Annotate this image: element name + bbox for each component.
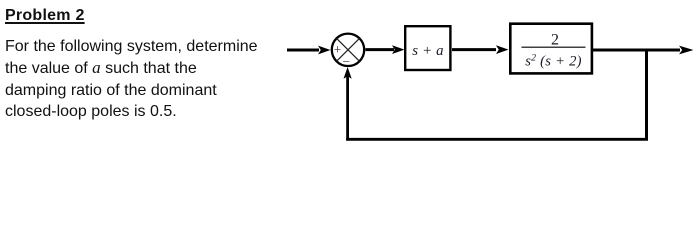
svg-text:s2 (s + 2): s2 (s + 2) [525, 52, 582, 69]
wire input [287, 49, 319, 52]
summing junction circle [332, 34, 364, 66]
block G1 (s + a) [405, 26, 450, 70]
wire feedback bottom [346, 138, 648, 141]
wire summing junction to block G1 [366, 48, 395, 51]
arrowhead into block G1 [392, 45, 405, 54]
summing junction X cross [337, 38, 360, 61]
fraction bar [522, 46, 586, 48]
wire block G1 to block G2 [452, 48, 496, 51]
svg-text:s + a: s + a [412, 43, 444, 59]
arrowhead into block G2 [496, 45, 509, 54]
heading Problem 2 [5, 8, 85, 24]
problem statement paragraph [5, 36, 258, 123]
wire feedback up [346, 75, 349, 141]
wire output [592, 49, 680, 52]
block G2 (2 / s^2 (s+2)) [510, 24, 592, 74]
svg-text:−: − [342, 54, 350, 69]
svg-text:2: 2 [551, 31, 559, 48]
wire branch down [645, 49, 648, 140]
block diagram [0, 0, 699, 157]
arrowhead output [679, 46, 694, 55]
svg-text:+: + [334, 42, 342, 57]
arrowhead into summing junction [318, 46, 331, 55]
arrowhead into summing junction from below [344, 67, 352, 79]
